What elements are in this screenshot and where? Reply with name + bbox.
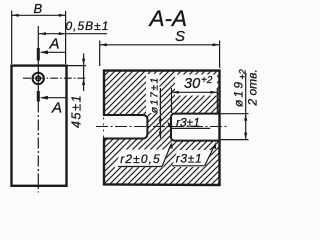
dimension 0,5B±1 arrowheads: [39, 32, 65, 35]
svg-text:B: B: [34, 1, 43, 16]
dimension S extension lines: [100, 41, 220, 69]
horizontal axis dash-dot: [96, 126, 228, 128]
section line vertical (cutting plane trace): [37, 26, 39, 48]
dimension B arrowheads: [12, 14, 66, 17]
r3 upper shelf underline: [171, 127, 210, 129]
r3 upper leader: [168, 123, 171, 128]
left edge lower segment: [103, 139, 105, 185]
ø19 arrowheads: [244, 114, 247, 139]
dimension 45±1 arrowheads (outside): [82, 59, 85, 85]
dimension B line: [12, 14, 66, 16]
dimension ø17±1 line: [159, 88, 161, 138]
right edge (continuous): [218, 70, 220, 186]
section thick bar upper: [37, 48, 40, 61]
30+2 arrowheads: [172, 91, 217, 94]
svg-text:45±1: 45±1: [70, 94, 84, 128]
svg-text:0,5B±1: 0,5B±1: [66, 19, 110, 33]
ø17 arrowheads: [159, 115, 162, 139]
svg-text:ø19: ø19: [232, 80, 246, 107]
hole inner circle: [36, 76, 41, 81]
dimension S line: [100, 44, 220, 46]
svg-text:+2: +2: [201, 75, 213, 86]
centerline continuation to bottom: [37, 102, 39, 193]
section arrow A lower: [41, 97, 66, 99]
hole outer circle: [33, 73, 44, 84]
svg-text:r3±1: r3±1: [176, 116, 200, 130]
svg-text:r2±0,5: r2±0,5: [120, 152, 161, 166]
ø19 extension lines: [221, 114, 249, 140]
section arrow A upper: [41, 51, 65, 53]
bottom edge: [103, 183, 221, 186]
dimension 30+2 line: [172, 91, 218, 93]
r3 lower leader: [205, 145, 215, 166]
hole vertical centerline: [37, 61, 39, 92]
hole horizontal centerline: [23, 77, 86, 79]
r2 shelf underline: [118, 166, 162, 168]
left channel outline: [103, 115, 148, 139]
section thick bar lower: [37, 91, 40, 102]
dimension B extension lines: [12, 11, 66, 65]
left view outline: [12, 66, 67, 186]
right channel outline: [171, 114, 219, 141]
svg-text:S: S: [175, 28, 185, 45]
dimension S arrowheads: [100, 43, 219, 46]
dimension 0,5B±1 line: [39, 33, 107, 35]
section block hatching: [103, 71, 220, 185]
svg-text:2 отв.: 2 отв.: [246, 69, 260, 106]
r3 lower shelf underline: [172, 165, 205, 167]
left edge upper segment: [103, 70, 105, 115]
svg-text:A: A: [49, 36, 60, 53]
svg-text:ø17±1: ø17±1: [149, 76, 161, 113]
dimension 45±1 line: [83, 54, 85, 92]
svg-text:r3±1: r3±1: [176, 152, 203, 166]
section block outline: top edge: [103, 69, 221, 71]
ø19 dimension line: [245, 73, 247, 140]
svg-text:30: 30: [184, 76, 200, 92]
top edge extension for 45 dim: [68, 65, 87, 67]
dimension 30+2 extension lines: [172, 88, 218, 113]
svg-text:A: A: [51, 100, 62, 117]
r2 leader: [162, 145, 171, 167]
